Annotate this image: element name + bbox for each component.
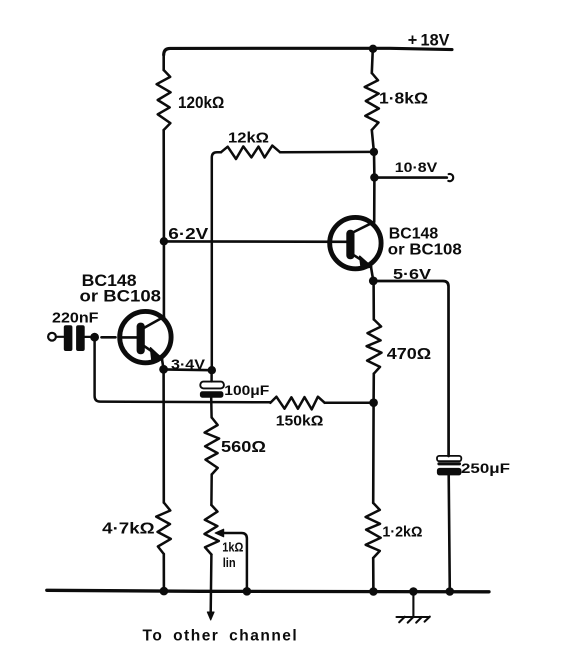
wire 3.4V node down to 4.7k	[162, 369, 165, 502]
resistor R 120kOhm	[157, 70, 171, 130]
node feedback junction dot (470R/150k/1.2k)	[369, 398, 378, 407]
node ground dot 4.7k	[160, 587, 169, 596]
transistor Q1 base bar	[137, 323, 145, 355]
terminal input open circle	[48, 333, 56, 341]
wire 5.6V node right and down to 250uF	[373, 281, 448, 456]
svg-text:12kΩ: 12kΩ	[228, 131, 269, 147]
wire 150k right lead	[325, 401, 374, 404]
transistor Q2 emitter stroke with arrow	[354, 255, 371, 266]
capacitor C 100uF top plate (hollow)	[200, 382, 224, 389]
svg-text:lin: lin	[223, 555, 236, 570]
svg-text:1kΩ: 1kΩ	[222, 540, 243, 555]
resistor R 560 Ohm	[205, 418, 220, 475]
resistor R 150kOhm	[270, 397, 324, 410]
capacitor C 220nF input, left plate	[64, 325, 73, 351]
svg-text:250μF: 250μF	[461, 461, 510, 476]
terminal output open hook	[448, 174, 453, 181]
node 10.8V junction dot	[370, 173, 378, 181]
wire Q2 emitter to 5.6V node	[371, 266, 374, 281]
wire 100uF bottom to 560R	[210, 398, 213, 418]
wire 470R bottom to feedback node	[372, 374, 375, 403]
transistor Q1 base lead inside	[121, 336, 138, 339]
wire 250uF bottom to ground rail	[449, 476, 450, 592]
wire input terminal to 220nF	[56, 336, 64, 338]
svg-text:1·8kΩ: 1·8kΩ	[379, 91, 428, 108]
transistor Q1 collector stroke	[144, 317, 164, 328]
node ground dot 1.2k	[369, 587, 378, 596]
svg-text:220nF: 220nF	[52, 310, 99, 327]
wire right column: rail to 1.8k	[372, 49, 373, 73]
svg-text:1·2kΩ: 1·2kΩ	[382, 524, 422, 540]
wire 120k bottom to 6.2V node	[162, 130, 165, 241]
node 100uF top junction dot	[208, 366, 216, 374]
svg-text:560Ω: 560Ω	[221, 439, 266, 456]
arrow to other channel	[207, 612, 214, 620]
svg-text:6·2V: 6·2V	[168, 226, 208, 243]
wire feedback node down to 1.2k	[372, 403, 375, 503]
wire from +18V rail down to 120k	[162, 54, 165, 70]
capacitor C 250uF top plate (hollow)	[437, 456, 461, 461]
wire 1.2k bottom to ground rail	[372, 558, 375, 591]
wire 10.8V node down to Q2 collector	[373, 178, 376, 222]
wire dash base node to Q1	[102, 336, 116, 339]
wire Q1 emitter to 3.4V node	[162, 358, 164, 369]
svg-text:4·7kΩ: 4·7kΩ	[102, 521, 154, 538]
svg-text:100μF: 100μF	[224, 383, 269, 398]
capacitor C 250uF bottom plate (solid)	[437, 468, 462, 476]
node ground dot chassis	[409, 587, 418, 596]
wire pot bottom to other channel	[209, 555, 212, 614]
svg-text:10·8V: 10·8V	[395, 159, 438, 175]
wire Q1 collector up to 6.2V node	[163, 242, 166, 317]
transistor Q1 BC148 circle	[120, 311, 171, 362]
wire ground rail	[47, 590, 489, 592]
transistor Q1 emitter stroke with arrow	[145, 346, 162, 358]
wire node to 100uF top plate	[210, 370, 213, 381]
wire 1.8k bottom to 12k node	[372, 130, 374, 152]
capacitor C 250uF middle thin plate	[437, 462, 461, 465]
node Q1 base junction dot	[90, 333, 99, 342]
resistor R 1.2kOhm	[366, 503, 381, 558]
wire 6.2V node to Q2 base	[164, 240, 347, 243]
wire wiper to ground rail	[222, 533, 247, 591]
node junction dot on +18V rail	[369, 45, 377, 53]
node 6.2V junction dot	[160, 237, 168, 245]
node junction dot 12k / 1.8k	[370, 148, 378, 156]
wire 3.4V node to 100uF node	[164, 368, 212, 371]
svg-text:470Ω: 470Ω	[387, 346, 432, 363]
wire 220nF to base node	[85, 336, 91, 338]
wire 5.6V node down to 470R	[372, 281, 375, 319]
resistor R 1.8kOhm	[365, 73, 379, 130]
transistor Q2 BC148 circle	[330, 217, 381, 268]
svg-text:+ 18V: + 18V	[408, 32, 450, 50]
svg-text:or BC108: or BC108	[80, 287, 162, 306]
resistor R 470 Ohm	[367, 319, 382, 373]
capacitor C 100uF bottom plate (solid)	[200, 391, 224, 397]
svg-text:BC148: BC148	[389, 226, 439, 243]
wire 10.8V output lead	[374, 176, 446, 179]
wire 12k branch: corner and vertical down to 100uF node	[212, 152, 221, 370]
wire 560R to pot top	[210, 475, 213, 506]
node 5.6V junction dot	[369, 277, 378, 286]
svg-text:To other channel: To other channel	[143, 628, 299, 645]
wire 12k node down to 10.8V node	[373, 152, 376, 178]
node ground dot 250uF	[446, 587, 455, 596]
wire +18V supply rail	[164, 48, 452, 55]
svg-text:3·4V: 3·4V	[171, 356, 206, 372]
transistor Q2 collector stroke	[354, 222, 374, 232]
resistor R 4.7kOhm	[156, 503, 171, 555]
potentiometer VR 1k lin track	[205, 505, 219, 555]
svg-text:150kΩ: 150kΩ	[276, 414, 324, 430]
ground chassis symbol	[397, 592, 430, 623]
node 3.4V junction dot	[159, 365, 168, 374]
transistor Q2 base bar	[346, 230, 354, 259]
resistor R 12kOhm	[221, 146, 280, 159]
svg-text:120kΩ: 120kΩ	[178, 94, 224, 112]
wire 4.7k bottom to ground rail	[163, 554, 166, 591]
node ground dot wiper	[243, 587, 252, 596]
wire 12k right end to 1.8k bottom node	[280, 151, 374, 154]
capacitor C 220nF input, right plate	[76, 325, 85, 351]
potentiometer wiper arrow	[215, 529, 223, 536]
svg-text:or BC108: or BC108	[388, 241, 462, 258]
wire feedback line left to Q1 base node	[95, 342, 271, 403]
svg-text:5·6V: 5·6V	[393, 266, 431, 283]
